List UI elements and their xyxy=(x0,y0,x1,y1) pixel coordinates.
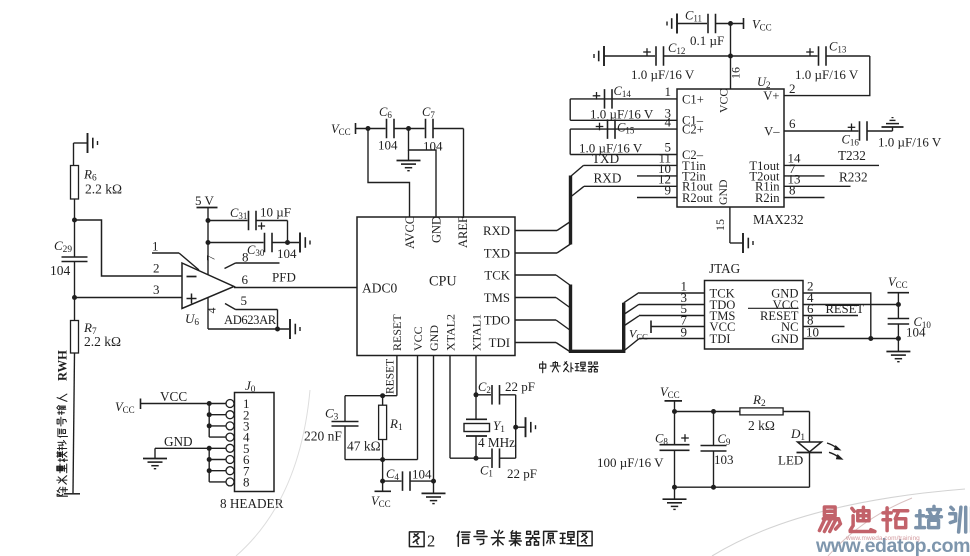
svg-text:6: 6 xyxy=(789,116,796,131)
node (pin2/pin10) xyxy=(868,336,873,341)
wire RXD to MAX232 R1out xyxy=(571,186,585,197)
svg-text:AVCC: AVCC xyxy=(403,216,417,249)
op-amp pin 4 to ground xyxy=(207,298,209,330)
svg-text:104: 104 xyxy=(378,138,398,153)
resistor R6 xyxy=(71,166,79,200)
node (pin4/Vcc column) xyxy=(896,302,901,307)
GND wire xyxy=(155,447,209,449)
node (C6/C7) xyxy=(406,126,411,131)
svg-text:1.0 µF/16 V: 1.0 µF/16 V xyxy=(878,135,942,150)
node (C29/R7 junction) xyxy=(72,295,77,300)
svg-text:V–: V– xyxy=(764,124,780,138)
svg-text:103: 103 xyxy=(714,452,734,467)
svg-text:8: 8 xyxy=(243,475,250,490)
svg-text:104: 104 xyxy=(423,139,443,154)
svg-text:GND: GND xyxy=(427,325,441,351)
Vcc terminal to JTAG pin 7 xyxy=(650,321,652,334)
caption: figure 2 signal collector schematic xyxy=(409,532,424,547)
wire Vcc to pin16 node xyxy=(730,24,732,57)
svg-text:8: 8 xyxy=(242,250,249,265)
capacitor C31 xyxy=(208,220,248,222)
svg-text:RESET: RESET xyxy=(390,314,404,351)
svg-text:1.0 µF/16 V: 1.0 µF/16 V xyxy=(631,67,695,82)
svg-text:TDI: TDI xyxy=(489,336,510,350)
wire to LED xyxy=(783,411,809,413)
svg-text:VCC: VCC xyxy=(411,326,425,351)
op-amp pin 5 stub xyxy=(225,304,236,310)
svg-text:GND: GND xyxy=(430,216,444,243)
capacitor C13 to V+ pin 2 xyxy=(731,55,818,57)
GND bus to pins 5-8 xyxy=(208,448,210,482)
wire T2out stub xyxy=(784,175,825,177)
svg-text:GND: GND xyxy=(164,434,193,449)
ground (LED circuit) xyxy=(674,487,676,499)
svg-text:C2+: C2+ xyxy=(682,123,704,137)
svg-text:2: 2 xyxy=(789,81,796,96)
svg-text:C1+: C1+ xyxy=(682,92,704,106)
svg-text:104: 104 xyxy=(50,263,71,278)
svg-text:22 pF: 22 pF xyxy=(507,466,537,481)
svg-text:2.2 kΩ: 2.2 kΩ xyxy=(85,182,122,197)
svg-text:2: 2 xyxy=(153,261,160,276)
wire bus to JTAG TDO xyxy=(624,304,639,314)
svg-text:220 nF: 220 nF xyxy=(304,429,342,444)
capacitor C9 xyxy=(713,412,715,446)
capacitor C4 xyxy=(383,480,402,482)
svg-text:4: 4 xyxy=(205,308,219,314)
svg-text:RXD: RXD xyxy=(483,224,510,238)
svg-text:VCC: VCC xyxy=(160,389,187,404)
svg-text:V+: V+ xyxy=(763,89,779,103)
svg-text:47 kΩ: 47 kΩ xyxy=(347,439,381,454)
node (5V/C31) xyxy=(206,218,211,223)
node (C9 top) xyxy=(711,409,716,414)
MAX232 T2in stub xyxy=(637,175,677,177)
wire RESET node xyxy=(345,395,397,397)
wire xyxy=(74,199,76,257)
MAX232 pin 15 to ground xyxy=(729,207,731,243)
capacitor C15 loop pin4-pin5 xyxy=(608,128,678,130)
capacitor C12 with ground xyxy=(603,46,605,66)
CPU XTAL1 pin column xyxy=(475,356,477,395)
svg-text:100 µF/16 V: 100 µF/16 V xyxy=(597,455,664,470)
svg-text:104: 104 xyxy=(412,467,432,482)
VCC bus to pins 1-4 xyxy=(208,404,210,438)
J0 pin wires xyxy=(209,403,226,405)
wire bus to JTAG TMS xyxy=(624,316,639,326)
svg-text:ADC0: ADC0 xyxy=(362,281,398,296)
MAX232 R2out stub xyxy=(637,197,677,199)
op-amp pin 8 stub xyxy=(225,263,236,269)
capacitor C1 xyxy=(476,457,491,459)
svg-text:PFD: PFD xyxy=(272,270,296,285)
svg-text:R2out: R2out xyxy=(682,191,713,205)
svg-text:5 V: 5 V xyxy=(195,193,215,208)
node (R1 bottom) xyxy=(380,457,385,462)
node (C9 bottom) xyxy=(711,485,716,490)
wire top rail xyxy=(675,411,740,413)
ground (crystal) xyxy=(516,426,525,428)
ground (J0) xyxy=(154,448,156,458)
svg-text:8 HEADER: 8 HEADER xyxy=(220,496,284,511)
svg-text:T232: T232 xyxy=(838,148,866,163)
svg-text:TDO: TDO xyxy=(484,314,510,328)
capacitor C16 on V- with ground above xyxy=(784,130,859,132)
wire bus to JTAG TDI xyxy=(624,339,639,351)
crystal Y1 4MHz xyxy=(466,418,487,420)
svg-text:JTAG: JTAG xyxy=(709,261,741,276)
node (pin4/pin5 junction) xyxy=(275,327,280,332)
svg-text:16: 16 xyxy=(729,67,743,79)
LED D1 xyxy=(798,442,822,452)
svg-text:10 µF: 10 µF xyxy=(260,205,291,220)
node (XTAL2/C1/crystal) xyxy=(474,456,479,461)
svg-text:MAX232: MAX232 xyxy=(753,212,804,227)
ground (C6/C7 node) xyxy=(408,150,410,160)
wire CPU RXD to bus xyxy=(515,230,557,232)
capacitor C6 xyxy=(386,119,388,139)
svg-text:RXD: RXD xyxy=(594,171,622,186)
node (C4/Vcc terminal) xyxy=(380,479,385,484)
wire JTAG pin6 RESET xyxy=(803,315,858,317)
op-amp U6 AD623AR xyxy=(182,263,234,309)
svg-text:2 kΩ: 2 kΩ xyxy=(748,418,775,433)
capacitor C10 xyxy=(888,318,910,320)
MAX232 U2 xyxy=(677,89,784,207)
capacitor C2 xyxy=(476,394,491,396)
svg-text:4: 4 xyxy=(665,115,672,130)
label: rain input RWH vertical text xyxy=(57,487,67,496)
wire CPU TCK to bus xyxy=(515,274,556,276)
wire xyxy=(74,262,76,321)
svg-text:1.0 µF/16 V: 1.0 µF/16 V xyxy=(579,141,643,156)
node (Vcc/C6) xyxy=(366,126,371,131)
svg-text:VCC: VCC xyxy=(717,89,731,113)
capacitor C8 electrolytic xyxy=(674,412,676,445)
svg-text:6: 6 xyxy=(242,272,249,287)
svg-text:CPU: CPU xyxy=(429,274,457,290)
ground (C10) xyxy=(886,351,910,353)
wire bottom rail xyxy=(675,486,810,488)
svg-text:8: 8 xyxy=(789,183,796,198)
svg-text:AREF: AREF xyxy=(456,216,470,248)
wire bus to JTAG TCK xyxy=(624,293,639,303)
svg-text:7: 7 xyxy=(204,255,218,261)
svg-text:XTAL1: XTAL1 xyxy=(470,314,484,351)
wire to C4 row xyxy=(382,460,384,482)
wire R1in / R232 xyxy=(784,185,851,187)
svg-text:TMS: TMS xyxy=(484,291,510,305)
wire T1out / T232 xyxy=(784,164,879,166)
wire Vcc node to AVCC xyxy=(368,129,410,218)
svg-text:1.0 µF/16 V: 1.0 µF/16 V xyxy=(590,107,654,122)
svg-text:104: 104 xyxy=(906,325,926,340)
wire (RWH analog input) xyxy=(73,353,75,493)
svg-text:GND: GND xyxy=(716,179,730,205)
CPU VCC pin column xyxy=(417,356,419,460)
wire to op-amp pin 3 xyxy=(75,297,183,299)
node (5V/C30) xyxy=(206,240,211,245)
capacitor C30 xyxy=(208,242,264,244)
wire CPU TMS to bus xyxy=(515,297,556,299)
svg-text:XTAL2: XTAL2 xyxy=(444,314,458,351)
wire R2in stub xyxy=(784,197,825,199)
svg-text:LED: LED xyxy=(778,453,803,468)
CPU GND pin column to ground xyxy=(433,356,435,493)
resistor R1 xyxy=(382,396,384,406)
wire JTAG pin4 VCC xyxy=(803,304,898,306)
svg-text:2: 2 xyxy=(427,532,435,551)
CPU XTAL2 pin column xyxy=(449,356,451,459)
svg-text:2.2 kΩ: 2.2 kΩ xyxy=(84,334,121,349)
svg-text:TCK: TCK xyxy=(484,269,510,283)
svg-text:1.0 µF/16 V: 1.0 µF/16 V xyxy=(795,67,859,82)
wire TXD to MAX232 T1in xyxy=(571,165,584,176)
svg-text:RWH: RWH xyxy=(56,350,70,381)
node (pin10/ground column) xyxy=(896,336,901,341)
wire to op-amp pin 2 xyxy=(75,220,183,276)
svg-text:AD623AR: AD623AR xyxy=(224,313,277,327)
svg-text:3: 3 xyxy=(153,282,160,297)
wire JTAG pin10 GND xyxy=(803,338,898,340)
svg-text:9: 9 xyxy=(665,183,672,198)
CPU RESET pin stub xyxy=(396,356,398,396)
svg-text:TDI: TDI xyxy=(710,332,731,346)
wire (R1/C3 bottom to VCC pin) xyxy=(345,459,418,461)
ground (top-left input bias) xyxy=(74,142,88,144)
svg-text:22 pF: 22 pF xyxy=(505,379,535,394)
wire CPU TDO to bus xyxy=(515,319,556,321)
label: central processor (Chinese) xyxy=(540,362,546,373)
node (Vcc/C12/C13/pin16) xyxy=(728,54,733,59)
svg-text:www.mweda.com/training: www.mweda.com/training xyxy=(845,535,920,542)
wire xyxy=(897,324,899,351)
svg-text:TXD: TXD xyxy=(484,247,510,261)
svg-text:104: 104 xyxy=(277,246,297,261)
svg-text:5: 5 xyxy=(241,293,248,308)
capacitor C14 loop pin1-pin3 xyxy=(605,98,678,100)
node (Vcc/C8/top rail) xyxy=(672,409,677,414)
wire CPU TXD to bus xyxy=(515,252,557,254)
op-amp output pin 6 / PFD net to ADC0 xyxy=(234,287,357,289)
ground (C30/C31) xyxy=(299,233,301,253)
svg-text:1: 1 xyxy=(665,84,672,99)
Vcc terminal (below C4) xyxy=(382,481,384,491)
wire JTAG pin8 NC xyxy=(803,326,845,328)
node (RESET/R1/C3) xyxy=(380,393,385,398)
node (XTAL1/C2) xyxy=(474,392,479,397)
resistor R2 xyxy=(740,408,783,415)
LED light arrows xyxy=(827,443,837,448)
ground (op-amp pin 4) xyxy=(289,319,291,339)
resistor R7 xyxy=(71,321,79,354)
bus (RS232 thick line) xyxy=(569,176,572,245)
svg-text:15: 15 xyxy=(713,219,727,231)
node (C8 bottom) xyxy=(672,485,677,490)
svg-text:GND: GND xyxy=(771,332,798,346)
wire CPU TDI to bus xyxy=(515,342,556,344)
node (R6/C29 junction) xyxy=(72,218,77,223)
ground (CPU GND) xyxy=(422,492,446,494)
wire to AREF xyxy=(463,129,465,218)
svg-text:R232: R232 xyxy=(839,169,868,184)
wire C6/C7 node to CPU GND pin xyxy=(409,129,437,218)
capacitor C7 xyxy=(425,119,427,139)
bus (JTAG thick line) xyxy=(571,285,624,352)
wire JTAG pin2 GND xyxy=(803,293,871,339)
capacitor C3 xyxy=(344,396,346,421)
node (C4/GND column) xyxy=(431,479,436,484)
CPU U1 (central processor) xyxy=(357,217,515,356)
svg-text:0.1 µF: 0.1 µF xyxy=(690,33,724,48)
svg-text:RESET: RESET xyxy=(826,302,865,316)
wire xyxy=(73,143,75,166)
svg-text:4 MHz: 4 MHz xyxy=(478,435,515,450)
svg-text:1: 1 xyxy=(152,239,159,254)
svg-text:RESET: RESET xyxy=(385,359,397,394)
JTAG RESET overline xyxy=(748,307,799,309)
MAX232 pin 16 stub xyxy=(730,56,732,89)
node (crystal right / ground) xyxy=(513,425,518,430)
svg-text:R2in: R2in xyxy=(755,191,780,205)
capacitor C11 with ground and Vcc terminal xyxy=(676,14,678,34)
J0 pin circles xyxy=(226,400,234,408)
capacitor C29 xyxy=(62,256,88,258)
